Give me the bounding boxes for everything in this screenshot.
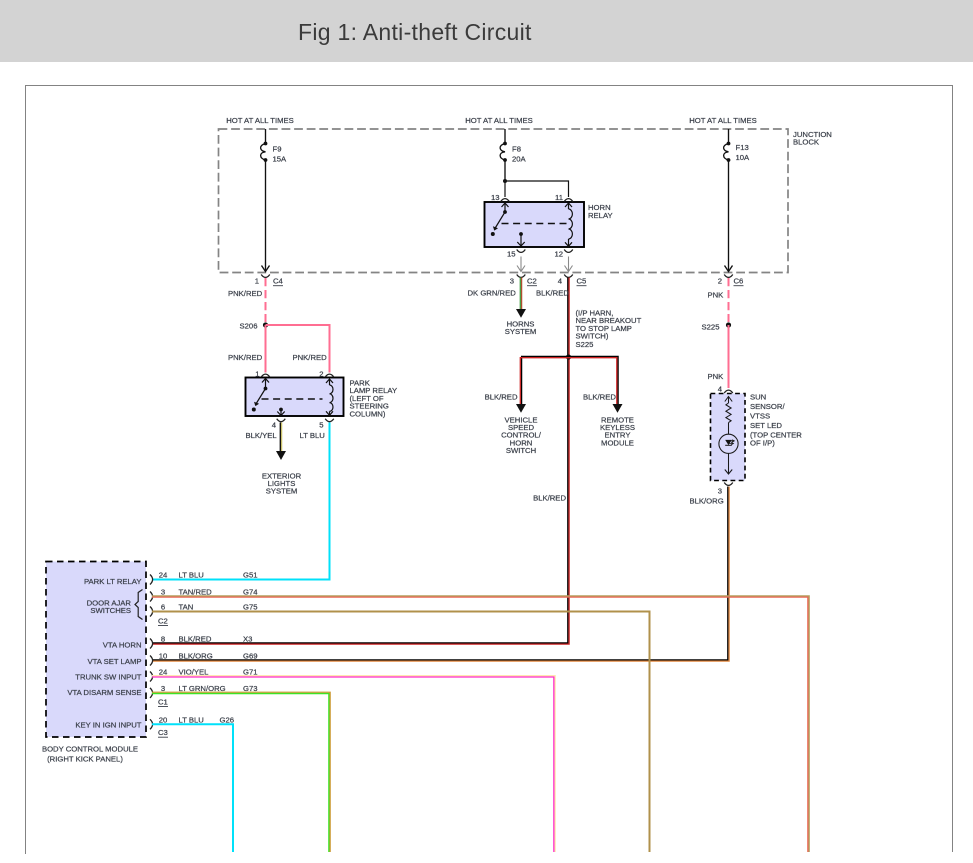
svg-text:S225: S225: [702, 323, 720, 332]
wire DK GRN/RED to horns system: [519, 278, 521, 310]
svg-text:2: 2: [718, 277, 722, 286]
relay K2 park lamp relay box: [246, 378, 344, 417]
pin 2 connector: [325, 374, 334, 377]
svg-text:C2: C2: [527, 277, 537, 286]
fuse F9 15A: [261, 129, 270, 272]
exterior lights system label: [262, 471, 302, 495]
pin 11 connector: [564, 199, 573, 202]
svg-text:PNK/RED: PNK/RED: [293, 353, 328, 362]
svg-text:(RIGHT KICK PANEL): (RIGHT KICK PANEL): [47, 755, 123, 764]
svg-text:BLK/RED: BLK/RED: [536, 289, 569, 298]
sun sensor / VTSS set LED box: [711, 394, 746, 481]
horns system label: [505, 320, 537, 337]
svg-text:S225: S225: [576, 340, 594, 349]
svg-text:BLK/RED: BLK/RED: [179, 635, 212, 644]
svg-text:TRUNK SW INPUT: TRUNK SW INPUT: [75, 672, 142, 681]
park relay coil: [326, 379, 333, 415]
remote keyless entry label: [600, 415, 635, 447]
svg-text:VTA DISARM SENSE: VTA DISARM SENSE: [67, 688, 141, 697]
svg-text:C2: C2: [158, 616, 168, 625]
splice S206: [263, 322, 268, 327]
svg-text:BLK/RED: BLK/RED: [485, 393, 518, 402]
wire pin 15 to junction block edge: [517, 257, 525, 272]
svg-text:HOT AT ALL TIMES: HOT AT ALL TIMES: [226, 116, 294, 125]
svg-text:BODY CONTROL MODULE: BODY CONTROL MODULE: [42, 745, 138, 754]
pin 13 connector: [501, 199, 510, 202]
svg-text:HOT AT ALL TIMES: HOT AT ALL TIMES: [465, 116, 533, 125]
pin 5 connector: [325, 419, 334, 422]
svg-text:C5: C5: [577, 277, 587, 286]
svg-text:10A: 10A: [736, 153, 751, 162]
svg-text:VTA HORN: VTA HORN: [103, 640, 142, 649]
wire labels BLK/YEL and LT BLU: [246, 431, 325, 440]
wire LT GRN/ORG G73: [152, 692, 330, 852]
relay K1 horn relay box: [485, 202, 585, 247]
svg-text:MODULE: MODULE: [601, 438, 634, 447]
svg-text:X3: X3: [243, 635, 252, 644]
BCM pin labels (inside box): [67, 577, 141, 730]
wire BLK/YEL park relay pin 4 to exterior lights: [279, 423, 281, 452]
svg-text:BLK/YEL: BLK/YEL: [246, 431, 278, 440]
svg-text:F13: F13: [736, 143, 749, 152]
svg-text:24: 24: [159, 571, 168, 580]
park relay switch output to pin 4: [277, 408, 284, 416]
svg-text:PARK LT RELAY: PARK LT RELAY: [84, 577, 142, 586]
svg-text:G75: G75: [243, 603, 258, 612]
horn relay switch contact: [491, 203, 509, 236]
svg-text:BLK/RED: BLK/RED: [533, 494, 566, 503]
junction block dashed boundary: [219, 129, 789, 273]
pin 4 connector: [277, 419, 286, 422]
wire pin 12 to junction block edge: [565, 257, 573, 272]
svg-text:13: 13: [491, 193, 500, 202]
sun sensor internals: resistor R: [725, 397, 732, 435]
wire PNK S225 to sun sensor pin 4: [728, 325, 730, 388]
pin 3 connector (sun sensor): [724, 483, 733, 486]
svg-text:C4: C4: [273, 277, 284, 286]
pin 1 connector: [261, 374, 270, 377]
svg-text:PNK: PNK: [708, 372, 725, 381]
fuse F13 10A: [724, 129, 733, 272]
svg-text:LT BLU: LT BLU: [179, 716, 204, 725]
wire BLK/ORG sun sensor pin 3 to BCM pin 10: [152, 487, 728, 660]
wire PNK/RED dashed C4 to S206: [265, 278, 267, 322]
wire F8 feed split to horn relay pins 13 and 11: [503, 179, 569, 197]
svg-text:BLK/ORG: BLK/ORG: [690, 497, 724, 506]
pin 12 connector: [564, 250, 573, 253]
wire BLK/RED to vehicle speed control: [522, 356, 569, 404]
svg-text:20A: 20A: [512, 155, 527, 164]
park relay switch contact: [252, 379, 269, 412]
svg-text:DK GRN/RED: DK GRN/RED: [468, 289, 517, 298]
svg-text:SYSTEM: SYSTEM: [505, 327, 537, 336]
svg-text:15: 15: [507, 250, 516, 259]
splice S225: [726, 322, 731, 327]
park relay armature dashed link: [262, 398, 323, 400]
connector C6 pin 2: [724, 275, 733, 278]
svg-text:PNK/RED: PNK/RED: [228, 289, 263, 298]
svg-text:SET LED: SET LED: [750, 421, 782, 430]
wire PNK dashed C6 to S225: [728, 278, 730, 322]
pin 15 connector: [517, 250, 526, 253]
wire PNK/RED S206 to park lamp relay pin 2: [266, 325, 330, 373]
svg-text:HOT AT ALL TIMES: HOT AT ALL TIMES: [689, 116, 757, 125]
svg-text:5: 5: [319, 421, 323, 430]
svg-text:3: 3: [718, 487, 722, 496]
svg-text:11: 11: [555, 193, 563, 202]
svg-text:1: 1: [255, 370, 259, 379]
svg-text:BLK/ORG: BLK/ORG: [179, 652, 213, 661]
svg-text:G51: G51: [243, 571, 258, 580]
connector C5 pin 4: [564, 275, 573, 278]
body control module label: [42, 745, 138, 764]
header band: [0, 0, 973, 62]
fuse F8 20A: [500, 129, 507, 181]
svg-text:S206: S206: [240, 322, 258, 331]
body control module box: [46, 562, 146, 738]
svg-text:RELAY: RELAY: [588, 211, 613, 220]
svg-text:LT BLU: LT BLU: [179, 571, 204, 580]
figure title: [298, 19, 532, 46]
svg-text:3: 3: [510, 277, 514, 286]
svg-text:OF I/P): OF I/P): [750, 439, 775, 448]
svg-text:G26: G26: [220, 716, 235, 725]
svg-text:C3: C3: [158, 728, 168, 737]
svg-text:4: 4: [272, 421, 277, 430]
wire LT BLU G51 park relay pin 5 to BCM: [152, 423, 330, 580]
horn relay coil: [565, 203, 572, 246]
svg-text:COLUMN): COLUMN): [350, 409, 386, 418]
wire TAN G75: [152, 612, 650, 853]
wire PNK/RED S206 to park lamp relay pin 1: [265, 325, 267, 373]
svg-text:20: 20: [159, 716, 168, 725]
park lamp relay label: [350, 379, 398, 419]
svg-text:BLK/RED: BLK/RED: [583, 393, 616, 402]
sun sensor internals: LED D1: [719, 434, 738, 474]
svg-text:LT BLU: LT BLU: [300, 431, 325, 440]
svg-text:G69: G69: [243, 652, 258, 661]
svg-text:C6: C6: [734, 277, 744, 286]
svg-text:F8: F8: [512, 145, 521, 154]
svg-text:15A: 15A: [273, 155, 288, 164]
horn relay switch output to pin 15: [517, 232, 524, 246]
wire TAN/RED G74: [152, 596, 809, 852]
svg-text:6: 6: [161, 603, 165, 612]
svg-text:C1: C1: [158, 697, 168, 706]
svg-text:1: 1: [255, 277, 259, 286]
S225 harness note: [576, 309, 642, 349]
svg-text:F9: F9: [273, 145, 282, 154]
brace for door ajar switches: [135, 590, 143, 620]
pin 4 connector (sun sensor): [724, 390, 733, 393]
svg-text:SWITCH: SWITCH: [506, 446, 536, 455]
horn relay armature dashed link: [502, 223, 569, 225]
vehicle speed control label: [501, 415, 542, 455]
svg-text:PNK: PNK: [708, 291, 725, 300]
svg-text:SYSTEM: SYSTEM: [266, 487, 298, 496]
connector C4 pin 1: [261, 275, 270, 278]
svg-text:KEY IN IGN INPUT: KEY IN IGN INPUT: [75, 721, 141, 730]
svg-text:12: 12: [554, 250, 563, 259]
sun sensor label: [750, 393, 802, 448]
svg-text:TAN: TAN: [179, 603, 194, 612]
svg-text:10: 10: [159, 652, 168, 661]
svg-text:4: 4: [558, 277, 563, 286]
svg-text:SENSOR/: SENSOR/: [750, 402, 785, 411]
splice S225 (horn feed): [566, 354, 571, 359]
wire LT BLU G26: [152, 724, 233, 852]
svg-text:VTA SET LAMP: VTA SET LAMP: [88, 657, 142, 666]
BCM pin connectors: [150, 575, 153, 730]
wire BLK/RED to remote keyless entry module: [569, 356, 619, 404]
wire VIO/YEL G71: [152, 676, 555, 852]
svg-text:8: 8: [161, 635, 165, 644]
svg-text:4: 4: [718, 385, 723, 394]
svg-text:VTSS: VTSS: [750, 412, 770, 421]
svg-text:BLOCK: BLOCK: [793, 138, 820, 147]
connector C2 pin 3: [517, 275, 526, 278]
horn relay label: [588, 203, 613, 220]
svg-text:PNK/RED: PNK/RED: [228, 353, 263, 362]
svg-text:2: 2: [319, 370, 323, 379]
wire BLK/RED C5 down to S225 splice and on to BCM pin 8: [152, 278, 568, 643]
svg-text:SWITCHES: SWITCHES: [90, 606, 131, 615]
svg-text:SUN: SUN: [750, 393, 766, 402]
BCM row annotations: pin numbers, wire names, circuit ids: [159, 571, 259, 725]
